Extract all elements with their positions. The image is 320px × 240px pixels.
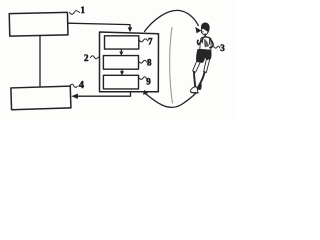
faint vertical curve [170,28,173,104]
label 2 squiggle [91,56,99,59]
box 1 [9,12,68,36]
runner mouth [202,31,203,33]
runner front shoe [191,87,198,93]
runner chest shading [204,39,209,48]
wire box2 bottom to box4 with left arrow [78,92,131,96]
box 4 [11,86,71,110]
runner face outline [201,28,208,35]
svg-text:1: 1 [81,5,86,15]
runner shoulder line [202,37,211,39]
box 2 (outer) [100,32,159,92]
runner torso tank top [200,37,211,50]
runner back thigh [204,59,210,73]
svg-text:4: 4 [79,80,85,91]
box 7 [105,36,139,49]
label 9 squiggle [139,77,146,80]
svg-text:8: 8 [147,58,152,68]
runner eye [202,28,203,29]
arrow 7 to 8 [120,49,122,52]
bottom arc person foot to box2 with up arrow [145,92,197,107]
runner front arm [197,39,202,45]
runner front thigh [193,61,201,72]
svg-text:3: 3 [220,43,225,53]
arrow 8 to 9 [121,69,123,72]
runner front fist [197,40,199,42]
box 9 [103,75,138,89]
svg-text:7: 7 [148,37,153,47]
runner front shoe sole [191,92,198,94]
wire box1 bottom to box4 top [39,36,41,88]
runner back arm [210,39,213,48]
runner hair [201,23,209,33]
svg-text:2: 2 [84,53,89,63]
label 8 squiggle [139,60,147,63]
arc box2 top to person head [145,10,199,31]
runner front armhole [202,38,204,43]
runner shorts [197,49,212,62]
runner back shoe [197,84,201,90]
runner front shin [194,72,195,87]
label 3 squiggle [214,46,220,48]
svg-text:9: 9 [146,77,151,87]
label 4 squiggle [70,84,77,87]
label 1 squiggle [70,11,80,15]
box 8 [103,56,138,70]
arrowhead at person head [195,27,201,33]
runner neck [204,34,206,36]
wire box1 to box2 with down arrow [68,23,130,29]
label 7 squiggle [139,39,148,42]
runner back armhole [208,39,211,45]
runner back calf [200,72,205,84]
